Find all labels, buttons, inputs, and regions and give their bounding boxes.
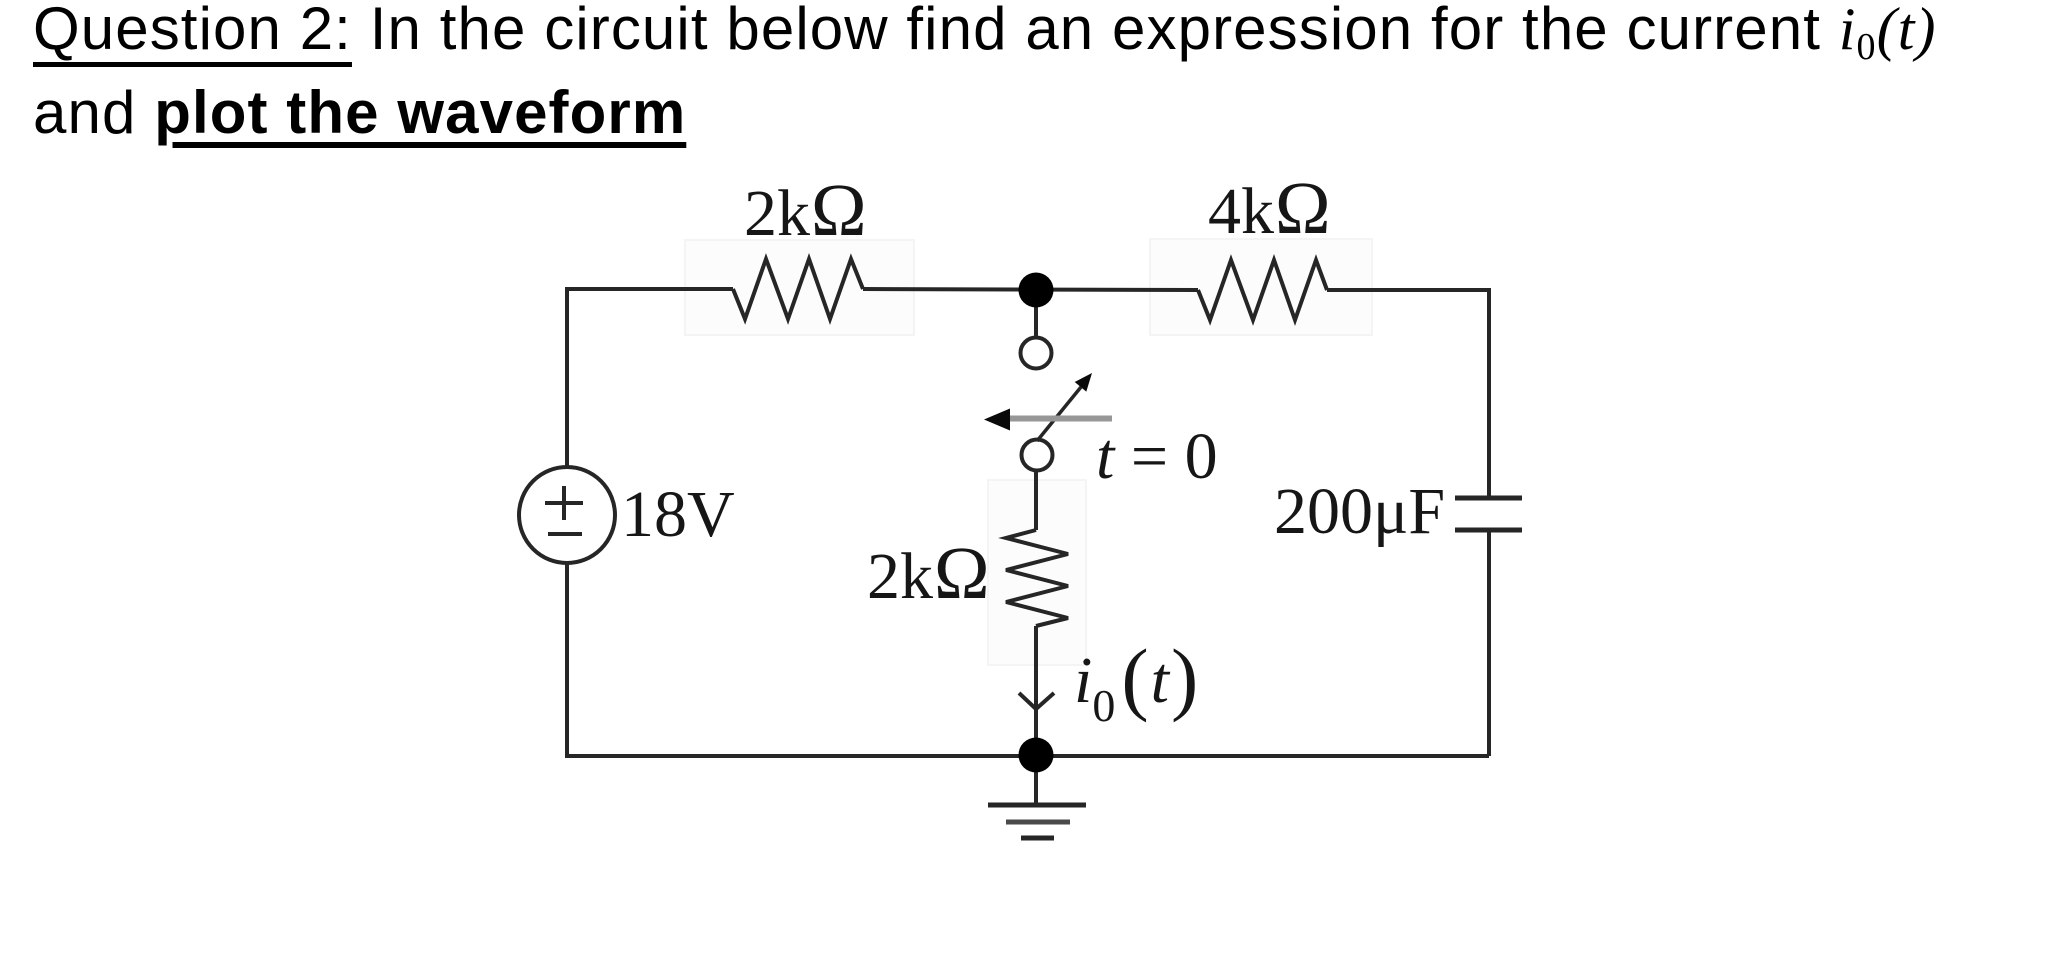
voltage source V1 circle (519, 467, 615, 563)
switch SW1 stub from node (1034, 290, 1038, 337)
svg-text:2kΩ: 2kΩ (744, 169, 868, 252)
wire top-middle (863, 289, 1198, 290)
wire from switch to R3 (1034, 471, 1038, 530)
node B bottom junction dot (1019, 738, 1054, 773)
wire top-right horizontal (1327, 288, 1489, 292)
capacitor C1 200uF plates (1455, 498, 1522, 530)
faint artifact box around R3 (988, 480, 1086, 665)
current arrow chevron i0 (1019, 693, 1054, 709)
wire left vertical lower (565, 564, 569, 756)
switch SW1 lower contact circle (1022, 440, 1053, 471)
svg-text:200μF: 200μF (1274, 475, 1445, 548)
wire right vertical lower (1487, 530, 1491, 756)
switch SW1 motion arrowhead left (984, 409, 1010, 431)
switch SW1 horizontal motion line (1008, 416, 1112, 422)
node A top junction dot (1019, 273, 1054, 308)
wire top-left horizontal (567, 287, 733, 291)
svg-text:i0(t): i0(t) (1074, 632, 1198, 731)
svg-text:2kΩ: 2kΩ (867, 532, 991, 615)
V1 plus sign (545, 486, 583, 520)
svg-text:4kΩ: 4kΩ (1208, 167, 1332, 250)
wire left vertical upper (565, 287, 569, 466)
switch SW1 arm (1037, 387, 1081, 441)
wire from R3 to bottom node (1034, 626, 1038, 754)
wire right vertical upper (1487, 288, 1491, 498)
faint artifact box around R1 (685, 240, 914, 335)
switch SW1 arm arrowhead (1075, 373, 1092, 392)
ground bar 3 (1021, 836, 1054, 841)
faint artifact box around R2 (1150, 239, 1372, 335)
wire bottom horizontal (565, 754, 1489, 758)
V1 minus sign (548, 532, 582, 536)
svg-text:18V: 18V (621, 478, 735, 551)
resistor R2 4kOhm top-right zigzag (1198, 260, 1327, 320)
switch SW1 upper contact circle (1021, 338, 1052, 369)
resistor R1 2kOhm top-left zigzag (733, 259, 863, 319)
ground stub (1034, 756, 1038, 805)
resistor R3 2kOhm vertical zigzag (1006, 530, 1068, 626)
title line 1 and 2 (33, 0, 2013, 151)
svg-text:t = 0: t = 0 (1096, 420, 1218, 493)
ground bar 2 (1006, 820, 1070, 825)
ground bar 1 (988, 803, 1086, 808)
